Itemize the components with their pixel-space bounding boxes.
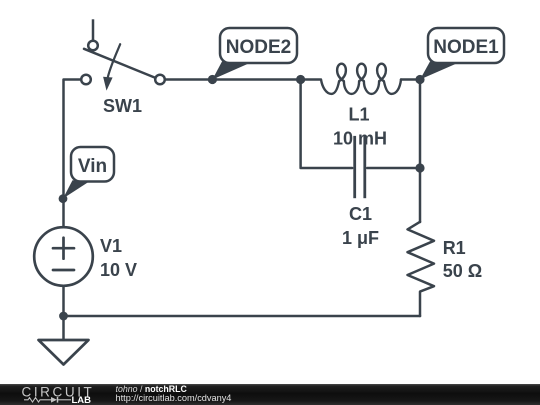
svg-text:50 Ω: 50 Ω (443, 261, 482, 281)
voltage source V1 (34, 227, 93, 286)
svg-text:R1: R1 (443, 238, 466, 258)
svg-text:10 V: 10 V (100, 260, 137, 280)
switch SW1 blade (84, 49, 156, 78)
wire: right rail NODE1 down to resistor (419, 80, 422, 223)
wire: inductor lead left (301, 78, 321, 81)
svg-text:L1: L1 (348, 105, 369, 125)
wire: bottom return rail (64, 315, 421, 318)
node dot NODE2 (208, 75, 217, 84)
node label NODE2 (212, 28, 297, 80)
svg-text:SW1: SW1 (103, 96, 142, 116)
switch SW1 actuation arrow (103, 44, 120, 90)
switch SW1 top terminal (88, 41, 98, 51)
svg-text:NODE1: NODE1 (433, 37, 499, 58)
svg-text:LAB: LAB (72, 395, 92, 405)
svg-text:10 mH: 10 mH (333, 129, 387, 149)
svg-text:NODE2: NODE2 (226, 37, 291, 58)
junction: ground rail (59, 312, 68, 321)
svg-text:1 μF: 1 μF (342, 228, 379, 248)
footer bar (0, 384, 540, 405)
svg-text:http://circuitlab.com/cdvany4: http://circuitlab.com/cdvany4 (116, 393, 232, 403)
capacitor C1 plate right (363, 136, 366, 198)
switch SW1 left terminal (81, 75, 91, 85)
node dot Vin (59, 194, 68, 203)
wire: inductor lead right (401, 78, 420, 81)
wire: capacitor to right rail (367, 167, 420, 170)
wire: left terminal to left rail (64, 80, 82, 228)
ground (39, 340, 89, 365)
node dot NODE1 (415, 75, 424, 84)
node label Vin (63, 147, 114, 199)
wire: V1 bottom to ground junction (62, 286, 65, 340)
capacitor C1 plate left (353, 136, 356, 198)
wire: LC left branch down (301, 80, 353, 169)
junction: LC left branch (296, 75, 305, 84)
junction: capacitor right / resistor top (415, 163, 424, 172)
node label NODE1 (420, 28, 504, 80)
svg-text:Vin: Vin (78, 156, 107, 177)
svg-text:V1: V1 (100, 236, 122, 256)
inductor L1 (321, 64, 401, 94)
wire: switch right terminal to NODE2 (165, 78, 301, 81)
wire: top stub above switch (92, 19, 95, 40)
switch SW1 right terminal (155, 75, 165, 85)
svg-text:C1: C1 (349, 204, 372, 224)
CircuitLab logo schematic line (24, 397, 71, 403)
resistor R1 (408, 222, 435, 316)
